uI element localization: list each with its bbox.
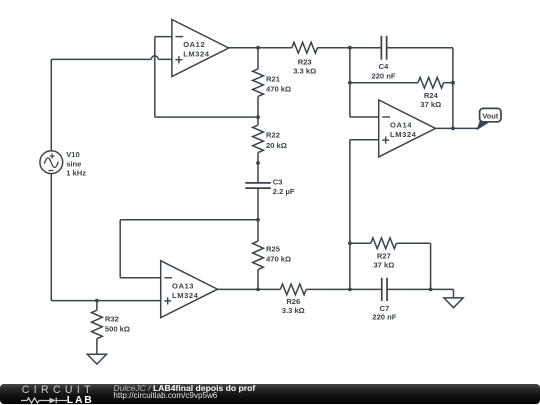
svg-text:3.3 kΩ: 3.3 kΩ bbox=[293, 66, 316, 75]
capacitor C7 bbox=[381, 278, 383, 301]
svg-text:37 kΩ: 37 kΩ bbox=[420, 100, 441, 109]
svg-text:3.3 kΩ: 3.3 kΩ bbox=[282, 306, 305, 315]
svg-text:OA14: OA14 bbox=[390, 121, 412, 130]
wire OA12 feedback vertical bbox=[154, 37, 156, 117]
wire R23 to node B bbox=[318, 47, 350, 49]
svg-text:R26: R26 bbox=[286, 297, 300, 306]
wire OA14 plus vertical bbox=[350, 139, 379, 141]
junction node A bbox=[256, 46, 260, 50]
capacitor C3 bbox=[245, 182, 271, 184]
svg-text:V10: V10 bbox=[66, 150, 80, 159]
svg-text:LM324: LM324 bbox=[172, 291, 199, 300]
svg-text:C3: C3 bbox=[273, 178, 283, 187]
resistor R24 bbox=[418, 77, 444, 88]
wire R21 to node C bbox=[257, 96, 259, 117]
svg-text:R27: R27 bbox=[377, 251, 391, 260]
junction output node bbox=[451, 126, 455, 130]
svg-text:2.2 µF: 2.2 µF bbox=[273, 187, 295, 196]
ground left bbox=[87, 354, 106, 364]
svg-text:500 kΩ: 500 kΩ bbox=[105, 325, 130, 334]
wire R24 branch left bbox=[350, 82, 418, 84]
wire C3 to node E bbox=[257, 188, 259, 220]
wire V10 to OA12 plus with hop bbox=[51, 58, 151, 60]
wire V10 top bbox=[50, 59, 52, 150]
svg-text:220 nF: 220 nF bbox=[371, 72, 395, 81]
wire R26 to C7 bbox=[306, 288, 382, 290]
junction R27 left bbox=[348, 241, 352, 245]
wire R25 to node F bbox=[257, 270, 259, 290]
wire node E to R25 bbox=[257, 220, 259, 241]
wire OA14 output bbox=[436, 127, 478, 129]
svg-text:470 kΩ: 470 kΩ bbox=[266, 255, 291, 264]
junction R27 right bbox=[429, 288, 433, 292]
wire node B to C4 bbox=[350, 47, 381, 49]
svg-text:20 kΩ: 20 kΩ bbox=[266, 141, 287, 150]
svg-text:1 kHz: 1 kHz bbox=[66, 169, 86, 178]
resistor R22 bbox=[253, 125, 264, 153]
wire R27 right leg bbox=[396, 242, 430, 244]
resistor R23 bbox=[292, 42, 318, 53]
wire V10 bottom bbox=[50, 174, 52, 301]
wire R24 to right vertical bbox=[444, 82, 453, 84]
junction R32 tap bbox=[95, 299, 99, 303]
junction node E bbox=[256, 218, 260, 222]
svg-text:LM324: LM324 bbox=[183, 50, 210, 59]
junction node D bbox=[256, 161, 260, 165]
junction bottom mid bbox=[348, 288, 352, 292]
svg-text:R32: R32 bbox=[105, 314, 119, 323]
wire ground stub right bbox=[453, 289, 455, 298]
svg-text:R23: R23 bbox=[298, 57, 312, 66]
svg-text:Vout: Vout bbox=[482, 112, 498, 121]
wire OA12 minus stub bbox=[155, 36, 172, 38]
wire C4 to right corner bbox=[387, 47, 453, 49]
footer bar CircuitLab bbox=[0, 384, 540, 404]
junction R24 left bbox=[348, 81, 352, 85]
wire OA13 feedback vertical bbox=[119, 220, 121, 278]
wire R32 stub bbox=[96, 301, 98, 311]
svg-text:220 nF: 220 nF bbox=[372, 313, 396, 322]
op-amp U OA13 bbox=[161, 261, 218, 318]
resistor R21 bbox=[253, 69, 264, 97]
wire node D to C3 bbox=[257, 163, 259, 183]
wire right vertical bbox=[452, 48, 454, 129]
wire OA13 feedback horizontal bbox=[120, 219, 258, 221]
svg-text:37 kΩ: 37 kΩ bbox=[373, 260, 394, 269]
svg-text:R22: R22 bbox=[266, 131, 280, 140]
wire OA13 output bbox=[218, 288, 281, 290]
op-amp U OA12 bbox=[172, 20, 229, 77]
wire R32 to ground bbox=[96, 339, 98, 355]
junction node F bbox=[256, 288, 260, 292]
junction node B bbox=[348, 46, 352, 50]
resistor R25 bbox=[253, 241, 264, 270]
wire node A down bbox=[257, 48, 259, 69]
svg-text:470 kΩ: 470 kΩ bbox=[266, 85, 291, 94]
resistor R26 bbox=[280, 284, 306, 295]
voltage source V10 bbox=[40, 151, 63, 174]
wire OA12 feedback horizontal bbox=[155, 116, 258, 118]
junction R24 right bbox=[451, 81, 455, 85]
wire R22 to node D bbox=[257, 153, 259, 163]
wire OA13 minus stub bbox=[120, 277, 161, 279]
capacitor C4 bbox=[380, 36, 382, 60]
wire to OA13 plus bbox=[51, 300, 160, 302]
wire OA14 minus vertical bbox=[349, 48, 351, 117]
node Vout flag bbox=[477, 122, 489, 130]
wire R27 branch bbox=[350, 242, 371, 244]
svg-text:R21: R21 bbox=[266, 75, 281, 84]
resistor R32 bbox=[92, 310, 103, 339]
svg-text:OA13: OA13 bbox=[172, 281, 194, 290]
svg-text:sine: sine bbox=[66, 160, 81, 169]
wire node C down bbox=[257, 117, 259, 125]
junction node C bbox=[256, 115, 260, 119]
svg-text:R25: R25 bbox=[266, 244, 281, 253]
wire OA12 output to node A bbox=[229, 47, 258, 49]
svg-text:R24: R24 bbox=[424, 91, 439, 100]
op-amp U OA14 bbox=[379, 100, 436, 157]
svg-text:LM324: LM324 bbox=[390, 130, 417, 139]
svg-text:OA12: OA12 bbox=[183, 40, 205, 49]
wire node A to R23 bbox=[258, 47, 292, 49]
wire C7 to ground bbox=[387, 288, 453, 290]
ground right bbox=[444, 298, 463, 308]
resistor R27 bbox=[371, 238, 397, 249]
svg-text:C4: C4 bbox=[379, 62, 389, 71]
